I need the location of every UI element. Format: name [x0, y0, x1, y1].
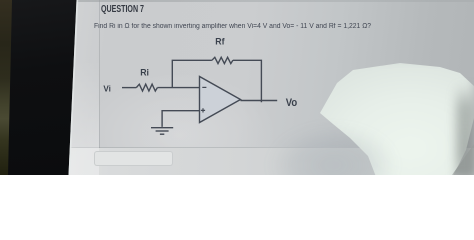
bottom-right corner gray shade: [438, 138, 474, 175]
svg-text:Rf: Rf: [215, 36, 225, 46]
paper lower area (answer strip): [50, 148, 474, 175]
resistor Ri: [136, 84, 157, 91]
vertical soft brightening lower-left of card: [60, 0, 474, 148]
hairline divider at y=147.5: [52, 147, 327, 148]
plus symbol: [201, 108, 205, 112]
title QUESTION 7: [101, 4, 144, 15]
paper upper area (question card): [60, 0, 474, 148]
resistor Rf: [212, 57, 233, 63]
circuit schematic: [0, 0, 474, 175]
wire Ri to inverting input: [157, 87, 199, 89]
left margin vertical brightening: [62, 60, 99, 175]
card left edge faint vertical line x=99: [99, 0, 100, 148]
svg-text:Ri: Ri: [140, 67, 149, 77]
soft dark blob shadow bottom-center: [270, 126, 396, 204]
wire feedback riser and top-left segment: [172, 60, 212, 87]
ground: [151, 128, 173, 135]
bright edge line along black band: [0, 0, 90, 175]
wire non-inverting input to ground: [162, 111, 199, 127]
glare pale-green reflection bottom right: [310, 58, 474, 190]
wire output: [241, 100, 278, 102]
olive-brown strip far left: [0, 0, 13, 175]
top edge hairline: [60, 0, 474, 2]
minus symbol: [202, 86, 206, 88]
svg-text:Vi: Vi: [103, 85, 111, 94]
wire top-right segment and down to output node: [233, 60, 262, 102]
black band left (phone/table edge): [0, 0, 90, 175]
svg-text:Vo: Vo: [286, 98, 297, 110]
op-amp U1: [200, 77, 241, 123]
question text: [94, 23, 371, 30]
dark band along right edge of glare: [456, 84, 474, 179]
wire Vi lead: [122, 87, 136, 89]
answer input box: [94, 151, 173, 166]
